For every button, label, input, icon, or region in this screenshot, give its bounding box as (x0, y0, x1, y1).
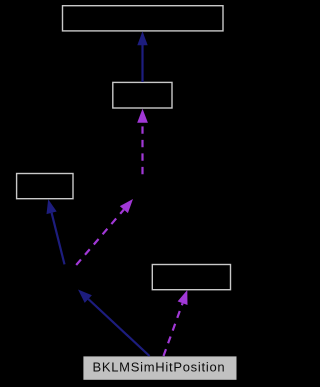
svg-text:BKLMSimHitPosition: BKLMSimHitPosition (92, 359, 225, 374)
